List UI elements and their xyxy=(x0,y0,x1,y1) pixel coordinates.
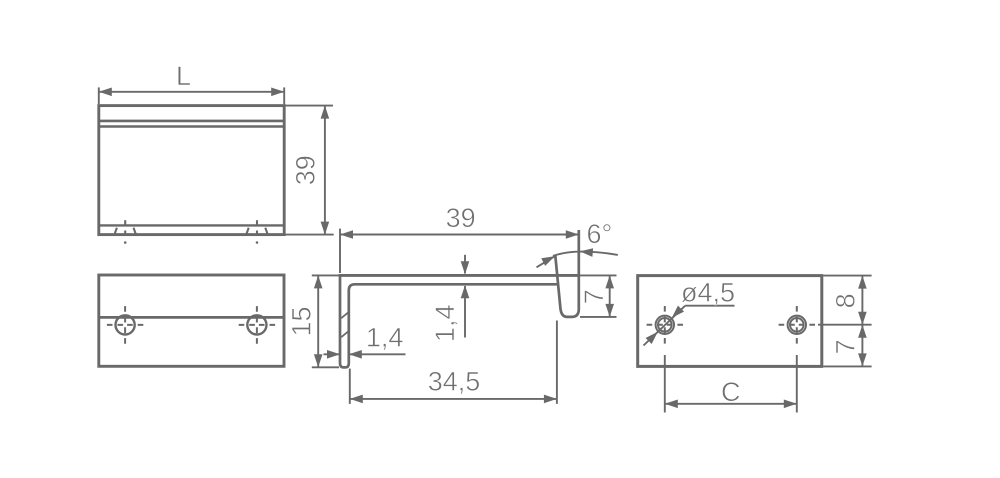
svg-text:34,5: 34,5 xyxy=(428,366,481,396)
svg-text:1,4: 1,4 xyxy=(366,322,404,352)
svg-text:7: 7 xyxy=(830,339,860,354)
svg-text:6°: 6° xyxy=(586,219,612,249)
svg-text:7: 7 xyxy=(579,289,609,304)
svg-text:ø4,5: ø4,5 xyxy=(681,278,735,308)
svg-text:8: 8 xyxy=(830,293,860,308)
svg-text:1,4: 1,4 xyxy=(430,305,460,343)
svg-text:15: 15 xyxy=(287,306,317,336)
svg-text:L: L xyxy=(176,61,191,91)
svg-text:39: 39 xyxy=(446,203,476,233)
svg-text:39: 39 xyxy=(290,155,320,185)
svg-text:C: C xyxy=(721,377,741,407)
